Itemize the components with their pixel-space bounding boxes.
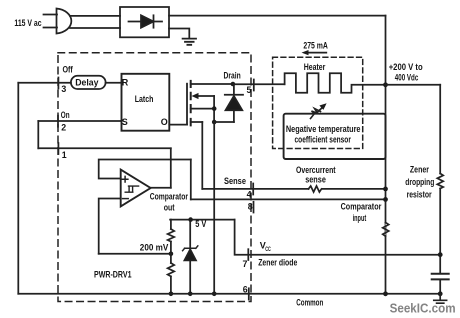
node divider common xyxy=(169,292,174,297)
svg-text:6: 6 xyxy=(243,285,248,295)
wire HV to zener resistor xyxy=(386,84,441,86)
wire output feedback up xyxy=(170,148,172,188)
pin 5 tick xyxy=(253,80,255,91)
node comp input junction xyxy=(383,197,388,202)
svg-text:2: 2 xyxy=(61,123,66,133)
wire pin2 On xyxy=(38,120,121,122)
wire to ground xyxy=(169,29,189,38)
wire comparator minus input xyxy=(99,199,121,254)
pin 3 tick xyxy=(57,78,59,89)
wire vcc drop xyxy=(235,220,441,255)
NTC arrow xyxy=(311,109,321,119)
wire plus loop to pin8 xyxy=(190,160,192,200)
pin 1 tick xyxy=(57,143,59,154)
Q1 body stub with arrow xyxy=(197,95,214,97)
node zener top xyxy=(188,217,193,222)
body diode D2 xyxy=(233,84,235,122)
svg-text:Sense: Sense xyxy=(224,176,246,186)
wire divider upper xyxy=(170,220,172,229)
pin 8 tick xyxy=(253,202,255,213)
wire left rail off xyxy=(17,83,19,294)
svg-text:4: 4 xyxy=(247,189,252,199)
svg-text:Comparator: Comparator xyxy=(150,191,189,201)
node sense junction xyxy=(383,187,388,192)
svg-text:Negative temperature: Negative temperature xyxy=(286,124,361,134)
wire drain to heater xyxy=(233,83,285,85)
svg-text:coefficient sensor: coefficient sensor xyxy=(295,135,352,145)
wire HV top xyxy=(169,15,386,17)
wire body to source xyxy=(213,96,215,122)
pin 7 tick xyxy=(247,249,249,260)
wire right rail lower xyxy=(439,189,441,274)
wire delay to latch R xyxy=(106,82,122,84)
ground xyxy=(183,39,196,45)
pin 4 tick xyxy=(252,184,254,195)
svg-text:resistor: resistor xyxy=(407,190,432,200)
wire cord upper xyxy=(70,15,120,17)
wire 200mV tap xyxy=(99,253,171,255)
wire pin2 to pin1 jumper xyxy=(37,121,39,148)
svg-text:Comparator: Comparator xyxy=(341,201,382,211)
wire cord lower xyxy=(70,27,120,29)
svg-text:dropping: dropping xyxy=(405,177,434,187)
rectifier box D1 xyxy=(120,7,169,37)
svg-text:Latch: Latch xyxy=(135,94,154,105)
svg-text:200 mV: 200 mV xyxy=(140,242,169,252)
heater element xyxy=(285,73,386,93)
resistor R3 overcurrent sense xyxy=(309,186,322,192)
node cap common xyxy=(438,291,443,296)
svg-text:8: 8 xyxy=(248,201,253,211)
wire comparator output xyxy=(151,187,171,189)
arrow 275mA xyxy=(306,52,327,54)
svg-text:Drain: Drain xyxy=(224,70,241,81)
pin 6 tick xyxy=(248,288,250,299)
svg-text:400 Vdc: 400 Vdc xyxy=(395,73,419,84)
node source common xyxy=(212,292,217,297)
svg-text:Delay: Delay xyxy=(75,77,99,88)
dashed box PWR-DRV1 xyxy=(58,53,251,302)
latch U1 box xyxy=(122,74,170,131)
svg-text:1: 1 xyxy=(62,150,67,160)
wire pin1 feedback xyxy=(38,147,171,149)
resistor R4 comparator pull xyxy=(383,223,389,237)
dashed box heater xyxy=(273,57,363,148)
svg-text:+200 V to: +200 V to xyxy=(389,62,423,73)
svg-text:5: 5 xyxy=(247,85,252,95)
comparator U2 triangle xyxy=(121,170,151,207)
wire 5V rail xyxy=(170,219,235,221)
svg-text:275 mA: 275 mA xyxy=(303,40,328,50)
node 200mV xyxy=(169,252,174,257)
wire source down to common xyxy=(213,122,215,294)
capacitor C1 xyxy=(432,274,449,280)
wire comparator plus input xyxy=(99,160,191,179)
svg-text:CC: CC xyxy=(265,247,271,253)
node vcc right xyxy=(438,252,443,257)
wire lower stub down to sense xyxy=(201,122,203,189)
svg-text:Zener: Zener xyxy=(410,165,429,175)
node heater junction xyxy=(383,82,388,87)
svg-text:7: 7 xyxy=(243,259,248,269)
svg-text:Overcurrent: Overcurrent xyxy=(296,165,336,175)
resistor R1 upper xyxy=(168,229,175,242)
wire comparator input pin8 xyxy=(191,198,386,200)
svg-text:SeekIC.com: SeekIC.com xyxy=(390,300,456,315)
AC plug P1 body xyxy=(57,9,72,34)
transistor Q1 gate bar xyxy=(186,84,188,125)
svg-text:out: out xyxy=(164,202,175,212)
svg-text:5 V: 5 V xyxy=(195,219,207,230)
svg-text:O: O xyxy=(161,117,168,127)
resistor R2 lower xyxy=(170,254,172,263)
wire common rail xyxy=(18,293,440,295)
wire latch O to gate xyxy=(169,124,187,126)
Q1 lower stub xyxy=(191,121,203,123)
transistor Q1 channel segments xyxy=(190,81,192,126)
svg-text:sense: sense xyxy=(305,175,326,185)
NTC sensor box xyxy=(284,114,386,159)
svg-text:Heater: Heater xyxy=(304,62,326,72)
zener diode D3 xyxy=(189,220,191,248)
Q1 drain stub xyxy=(191,83,233,85)
hysteresis glyph xyxy=(125,186,138,192)
node source junction xyxy=(212,106,217,111)
svg-text:PWR-DRV1: PWR-DRV1 xyxy=(94,269,132,280)
wire pin3 Off xyxy=(18,82,71,84)
ground right small xyxy=(434,294,447,303)
AC plug P1 prongs xyxy=(44,15,58,28)
node drain xyxy=(231,82,236,87)
svg-text:Off: Off xyxy=(63,65,74,76)
wire right rail upper xyxy=(439,85,441,174)
delay block xyxy=(71,76,106,89)
svg-text:3: 3 xyxy=(61,84,66,94)
svg-text:R: R xyxy=(122,78,129,88)
Q1 source stub xyxy=(191,108,215,110)
node zener common xyxy=(188,292,193,297)
node HV common xyxy=(383,291,388,296)
wire source to body diode xyxy=(214,121,234,123)
svg-text:On: On xyxy=(61,110,70,121)
svg-text:S: S xyxy=(122,117,128,127)
svg-text:Zener diode: Zener diode xyxy=(258,258,297,268)
svg-text:input: input xyxy=(353,213,367,223)
svg-text:Common: Common xyxy=(296,298,323,309)
wire HV vertical rail xyxy=(385,16,387,294)
resistor R5 zener dropping xyxy=(437,174,443,189)
svg-text:115 V ac: 115 V ac xyxy=(14,18,41,29)
pin 2 tick xyxy=(57,116,59,127)
rectifier diode D1 xyxy=(129,21,163,23)
wire sense xyxy=(202,188,385,190)
